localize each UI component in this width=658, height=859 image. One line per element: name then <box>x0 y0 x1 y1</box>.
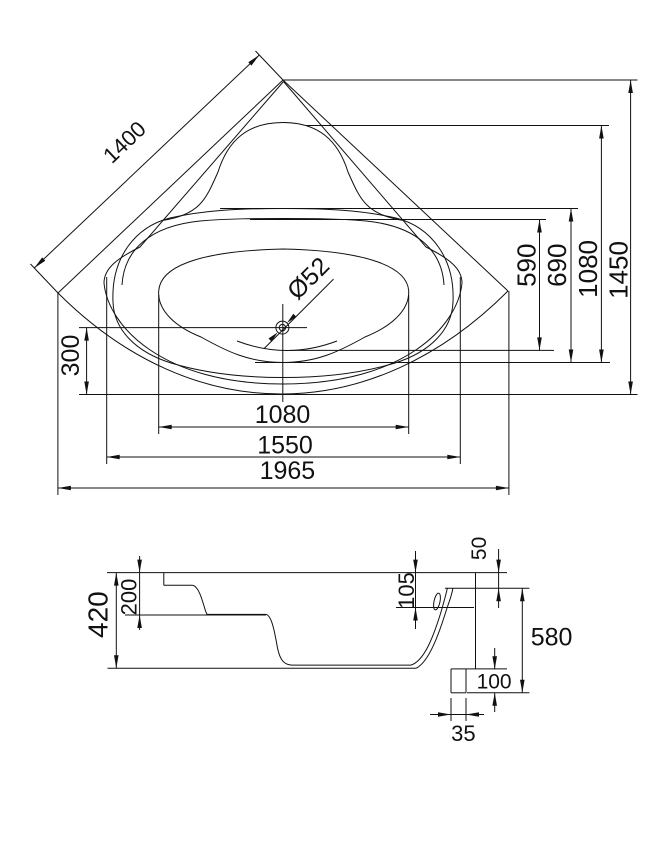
svg-text:590: 590 <box>511 244 541 287</box>
svg-text:100: 100 <box>477 671 512 694</box>
svg-text:690: 690 <box>542 244 572 287</box>
svg-text:420: 420 <box>82 591 113 638</box>
svg-text:35: 35 <box>451 721 475 746</box>
svg-text:1965: 1965 <box>260 457 316 485</box>
svg-text:1550: 1550 <box>257 431 313 459</box>
svg-text:50: 50 <box>468 537 491 560</box>
svg-text:300: 300 <box>57 335 85 377</box>
svg-text:1450: 1450 <box>604 241 634 299</box>
svg-text:105: 105 <box>394 572 419 609</box>
svg-text:580: 580 <box>531 624 573 652</box>
svg-text:1080: 1080 <box>573 240 603 298</box>
svg-text:1080: 1080 <box>255 401 311 429</box>
svg-text:200: 200 <box>117 579 142 616</box>
